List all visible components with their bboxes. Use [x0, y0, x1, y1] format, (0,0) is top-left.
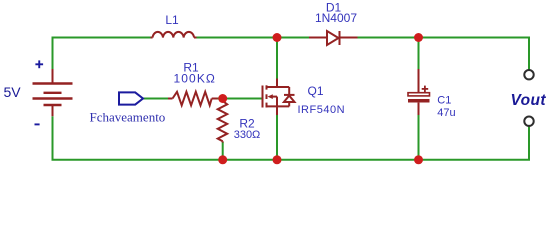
svg-text:5V: 5V: [4, 84, 22, 100]
svg-text:47u: 47u: [437, 107, 455, 119]
svg-text:100KΩ: 100KΩ: [174, 71, 217, 85]
svg-text:C1: C1: [437, 95, 451, 107]
svg-text:Fchaveamento: Fchaveamento: [90, 109, 166, 124]
svg-text:L1: L1: [165, 13, 179, 27]
svg-text:Q1: Q1: [307, 84, 323, 98]
svg-text:330Ω: 330Ω: [234, 129, 261, 141]
svg-text:Vout: Vout: [511, 92, 547, 109]
svg-text:1N4007: 1N4007: [315, 11, 357, 25]
svg-text:IRF540N: IRF540N: [298, 104, 346, 116]
